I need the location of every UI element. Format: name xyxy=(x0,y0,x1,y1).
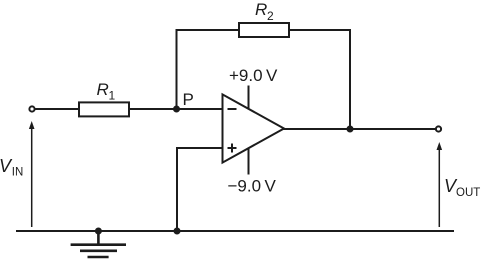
Vin measurement arrow xyxy=(31,127,33,227)
ground junction dot xyxy=(95,228,102,235)
minus sign inverting input xyxy=(228,108,237,110)
svg-text:1: 1 xyxy=(109,89,116,103)
output wire xyxy=(284,128,436,130)
svg-text:R: R xyxy=(255,0,267,19)
negative supply wire xyxy=(248,148,250,174)
resistor R2 xyxy=(239,23,289,37)
junction dot plus-input to rail xyxy=(174,228,181,235)
svg-text:OUT: OUT xyxy=(456,187,480,199)
ground symbol xyxy=(71,231,126,257)
output terminal circle xyxy=(436,126,441,131)
svg-text:+9.0 V: +9.0 V xyxy=(229,66,278,85)
wire non-inverting input to ground rail xyxy=(177,148,223,231)
input terminal circle xyxy=(29,106,34,111)
wire input to R1 xyxy=(35,108,79,110)
svg-text:R: R xyxy=(97,80,109,99)
wire R2 right and down to output xyxy=(289,30,350,130)
resistor R1 xyxy=(79,102,129,116)
plus sign non-inverting input xyxy=(228,147,237,149)
svg-text:2: 2 xyxy=(267,9,274,23)
svg-text:IN: IN xyxy=(12,167,23,179)
positive supply wire xyxy=(248,86,250,109)
wire node P up and right to R2 xyxy=(177,30,240,109)
output junction dot xyxy=(347,126,354,133)
svg-text:−9.0 V: −9.0 V xyxy=(228,177,277,196)
bottom ground rail xyxy=(16,230,454,232)
svg-text:P: P xyxy=(183,90,194,109)
Vout measurement arrow xyxy=(438,148,440,227)
wire R1 to op-amp inverting input xyxy=(129,108,223,110)
op-amp U1 triangle xyxy=(223,94,285,162)
node P junction dot xyxy=(173,106,180,113)
